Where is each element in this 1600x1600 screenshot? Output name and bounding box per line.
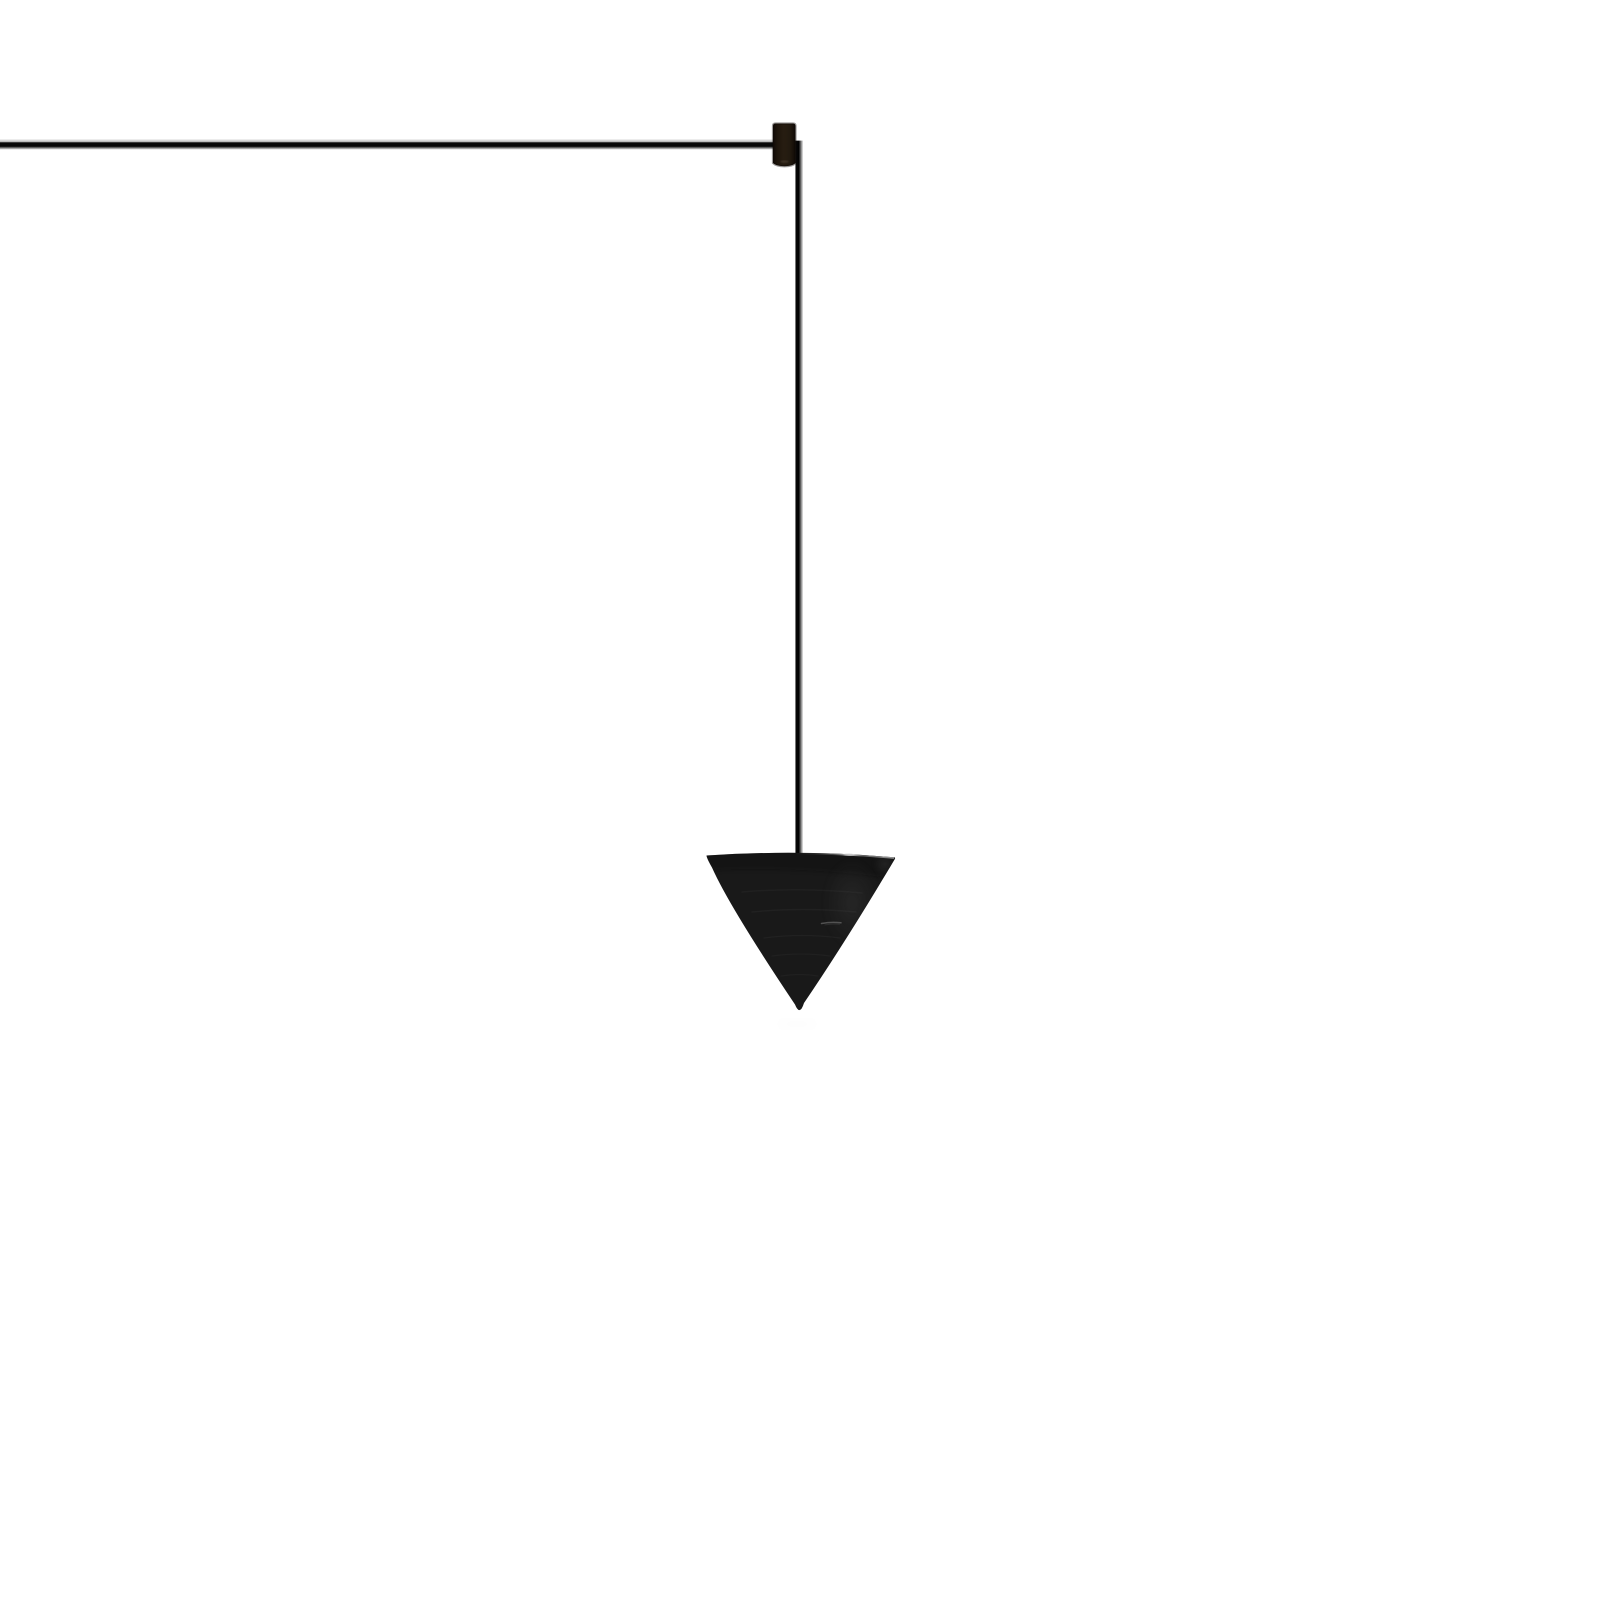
cone brush texture streaks [742, 890, 862, 976]
cone right corner sheen [873, 852, 897, 876]
cone right sheen [822, 857, 882, 949]
rim specular spot [844, 853, 853, 855]
cylinder bottom highlight [780, 160, 788, 163]
ceiling mount cylinder [773, 124, 796, 167]
cylinder inner edge shading [773, 124, 796, 167]
cone rim highlight line [789, 853, 894, 858]
pendant rod (vertical) [795, 141, 803, 857]
cone scratch mark [822, 922, 842, 923]
cone dark band below rim [700, 846, 900, 878]
cone shade [707, 853, 896, 1010]
wire (horizontal suspension wire) [0, 139, 776, 150]
faint shadow below tip [775, 1019, 819, 1029]
